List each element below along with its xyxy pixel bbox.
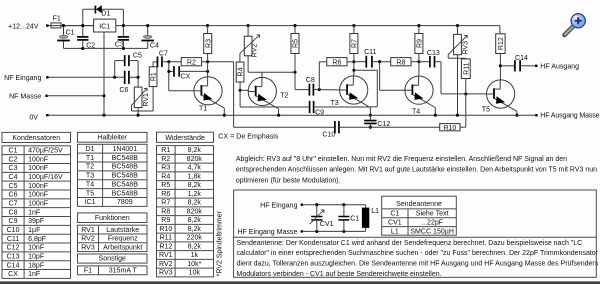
svg-text:R11: R11 <box>463 62 470 74</box>
svg-text:C10: C10 <box>322 132 335 139</box>
svg-text:Lautstärke: Lautstärke <box>106 227 139 234</box>
svg-text:R8: R8 <box>161 208 170 215</box>
svg-text:RV2: RV2 <box>252 44 259 58</box>
svg-text:R3: R3 <box>205 39 212 48</box>
svg-text:T4: T4 <box>86 181 94 188</box>
svg-text:10k: 10k <box>189 270 201 277</box>
svg-text:NF Eingang: NF Eingang <box>4 75 41 82</box>
svg-text:C1: C1 <box>9 147 18 154</box>
svg-text:1nF: 1nF <box>28 209 41 216</box>
svg-text:39pF: 39pF <box>28 218 45 225</box>
svg-text:R6: R6 <box>332 59 341 66</box>
svg-text:18pF: 18pF <box>28 262 45 269</box>
svg-text:8,2k: 8,2k <box>188 243 202 250</box>
svg-text:D1: D1 <box>86 146 95 153</box>
svg-text:BC548B: BC548B <box>112 190 139 197</box>
svg-text:C7: C7 <box>159 51 168 58</box>
svg-text:C8: C8 <box>306 77 315 84</box>
svg-text:100nF: 100nF <box>28 192 49 199</box>
svg-text:...22pF: ...22pF <box>421 219 444 226</box>
svg-text:R3: R3 <box>161 165 170 172</box>
svg-text:RV3: RV3 <box>81 244 95 251</box>
svg-text:R9: R9 <box>417 39 424 48</box>
svg-text:R7: R7 <box>352 39 359 48</box>
svg-text:470µF/25V: 470µF/25V <box>28 147 63 154</box>
svg-text:CV1: CV1 <box>388 219 402 226</box>
svg-text:R1: R1 <box>151 72 158 81</box>
svg-text:C14: C14 <box>515 55 528 62</box>
svg-text:Sendeantenne: Der Kondensator: Sendeantenne: Der Kondensator C1 wird an… <box>237 240 583 247</box>
svg-text:F1: F1 <box>53 16 61 23</box>
svg-text:1µF: 1µF <box>28 227 41 234</box>
svg-text:HF Ausgang: HF Ausgang <box>540 63 579 70</box>
svg-text:RV3: RV3 <box>159 270 173 277</box>
svg-text:HF Ausgang Masse: HF Ausgang Masse <box>540 113 599 120</box>
svg-text:820k: 820k <box>187 156 203 163</box>
svg-text:100nF: 100nF <box>28 200 49 207</box>
svg-text:C4: C4 <box>150 43 159 50</box>
svg-text:RV2: RV2 <box>81 236 95 243</box>
svg-text:T5: T5 <box>86 190 94 197</box>
svg-text:T2: T2 <box>280 93 288 100</box>
svg-text:BC548B: BC548B <box>112 164 139 171</box>
svg-text:BC548B: BC548B <box>112 181 139 188</box>
svg-text:C12: C12 <box>7 245 20 252</box>
svg-text:R10: R10 <box>159 226 172 233</box>
svg-text:R12: R12 <box>159 243 172 250</box>
svg-text:10k*: 10k* <box>187 261 201 268</box>
svg-text:Kondensatoren: Kondensatoren <box>12 135 60 142</box>
svg-text:HF Eingang: HF Eingang <box>260 202 297 209</box>
svg-text:T3: T3 <box>86 173 94 180</box>
svg-text:100nF: 100nF <box>28 183 49 190</box>
svg-text:C6: C6 <box>9 192 18 199</box>
svg-text:Sendeantenne: Sendeantenne <box>396 201 442 208</box>
svg-text:F1: F1 <box>84 268 92 275</box>
svg-text:Abgleich: RV3 auf "8 Uhr" eins: Abgleich: RV3 auf "8 Uhr" einstellen. Nu… <box>236 156 567 163</box>
svg-text:R2: R2 <box>187 59 196 66</box>
svg-text:C11: C11 <box>7 236 19 243</box>
svg-text:T3: T3 <box>330 100 338 107</box>
svg-text:C4: C4 <box>9 174 18 181</box>
svg-text:8,2k: 8,2k <box>188 147 202 154</box>
svg-text:100nF: 100nF <box>28 156 49 163</box>
svg-text:+12...24V: +12...24V <box>8 23 39 30</box>
svg-text:315mA T: 315mA T <box>109 268 138 275</box>
svg-text:T4: T4 <box>412 109 420 116</box>
svg-text:R8: R8 <box>396 59 405 66</box>
svg-text:RV3: RV3 <box>463 41 470 55</box>
svg-text:C14: C14 <box>7 262 20 269</box>
svg-text:Frequenz: Frequenz <box>108 236 138 243</box>
svg-text:calculator" in einer entsprech: calculator" in einer entsprechenden Such… <box>237 250 599 257</box>
svg-text:0V: 0V <box>29 115 38 122</box>
svg-text:R11: R11 <box>160 235 172 242</box>
svg-text:Sonstige: Sonstige <box>99 256 127 263</box>
svg-text:1,2k: 1,2k <box>188 191 202 198</box>
svg-text:8,2k: 8,2k <box>188 200 202 207</box>
svg-text:*RV2 Spindeltrimmer: *RV2 Spindeltrimmer <box>217 211 224 277</box>
svg-text:CV1: CV1 <box>320 221 334 228</box>
svg-text:IC1: IC1 <box>99 23 110 30</box>
svg-text:8,2k: 8,2k <box>188 182 202 189</box>
svg-text:C11: C11 <box>364 49 376 56</box>
svg-text:RV1: RV1 <box>159 252 173 259</box>
svg-text:100µF/16V: 100µF/16V <box>28 174 63 181</box>
svg-text:Funktionen: Funktionen <box>95 215 130 222</box>
svg-text:220k: 220k <box>187 235 203 242</box>
svg-text:C13: C13 <box>7 254 20 261</box>
svg-text:BC548B: BC548B <box>112 173 139 180</box>
svg-text:CX: CX <box>8 271 18 278</box>
svg-text:4,7k: 4,7k <box>188 165 202 172</box>
svg-text:R2: R2 <box>161 156 170 163</box>
svg-text:L1: L1 <box>371 208 379 215</box>
svg-text:C1: C1 <box>390 211 399 218</box>
svg-text:SMCC 150µH: SMCC 150µH <box>410 228 454 235</box>
svg-text:C10: C10 <box>7 227 20 234</box>
svg-text:C2: C2 <box>86 42 95 49</box>
svg-text:C3: C3 <box>9 165 18 172</box>
svg-text:dient dazu, Tolleranzen auszug: dient dazu, Tolleranzen auszugleichen. D… <box>237 261 600 268</box>
svg-text:R4: R4 <box>238 67 245 76</box>
svg-text:1nF: 1nF <box>28 271 41 278</box>
svg-text:BC548B: BC548B <box>112 155 139 162</box>
svg-text:10pF: 10pF <box>28 254 45 261</box>
svg-text:C5: C5 <box>9 183 18 190</box>
svg-text:T1: T1 <box>199 106 207 113</box>
svg-text:Arbeitspunkt: Arbeitspunkt <box>103 244 142 251</box>
svg-text:optimieren (für beste Modulati: optimieren (für beste Modulation). <box>236 178 341 185</box>
svg-text:R12: R12 <box>498 37 505 50</box>
svg-text:C5: C5 <box>133 52 142 59</box>
svg-text:NF Masse: NF Masse <box>9 94 41 101</box>
svg-text:C7: C7 <box>9 200 18 207</box>
svg-text:RV1: RV1 <box>143 93 150 107</box>
svg-text:1k: 1k <box>191 252 199 259</box>
svg-text:C6: C6 <box>119 87 128 94</box>
svg-text:7809: 7809 <box>117 199 133 206</box>
svg-text:100nF: 100nF <box>28 165 49 172</box>
svg-text:R1: R1 <box>161 147 170 154</box>
svg-text:Halbleiter: Halbleiter <box>97 135 127 142</box>
svg-text:R6: R6 <box>161 191 170 198</box>
svg-text:T5: T5 <box>482 106 490 113</box>
svg-text:R7: R7 <box>161 200 170 207</box>
svg-text:1,8k: 1,8k <box>188 173 202 180</box>
svg-text:6,8pF: 6,8pF <box>28 236 47 243</box>
svg-text:IC1: IC1 <box>85 199 96 206</box>
svg-text:R5: R5 <box>293 39 300 48</box>
svg-text:8,2k: 8,2k <box>188 217 202 224</box>
svg-text:HF Eingang Masse: HF Eingang Masse <box>237 229 297 236</box>
svg-text:T1: T1 <box>86 155 94 162</box>
svg-text:8,2k: 8,2k <box>188 226 202 233</box>
svg-text:T2: T2 <box>86 164 94 171</box>
svg-text:1N4001: 1N4001 <box>112 146 137 153</box>
svg-text:R10: R10 <box>443 125 456 132</box>
svg-text:R9: R9 <box>161 217 170 224</box>
svg-text:C1: C1 <box>350 215 359 222</box>
svg-text:RV1: RV1 <box>81 227 95 234</box>
svg-text:L1: L1 <box>391 228 399 235</box>
svg-text:C13: C13 <box>427 50 440 57</box>
svg-text:CX: CX <box>181 74 191 81</box>
svg-text:C1: C1 <box>66 29 75 36</box>
svg-text:C2: C2 <box>9 156 18 163</box>
svg-text:10nF: 10nF <box>28 245 45 252</box>
svg-text:C8: C8 <box>9 209 18 216</box>
svg-text:C9: C9 <box>9 218 18 225</box>
svg-text:RV2: RV2 <box>159 261 173 268</box>
svg-text:820k: 820k <box>187 208 203 215</box>
svg-text:CX = De Emphasis: CX = De Emphasis <box>218 132 279 140</box>
svg-text:D1: D1 <box>101 10 110 17</box>
svg-text:entsprechenden Anschlüssen anl: entsprechenden Anschlüssen anlegen. Mit … <box>236 167 597 174</box>
svg-text:Siehe Text: Siehe Text <box>416 211 449 218</box>
svg-text:Widerstände: Widerstände <box>165 135 205 142</box>
svg-text:R4: R4 <box>161 173 170 180</box>
svg-text:R5: R5 <box>161 182 170 189</box>
